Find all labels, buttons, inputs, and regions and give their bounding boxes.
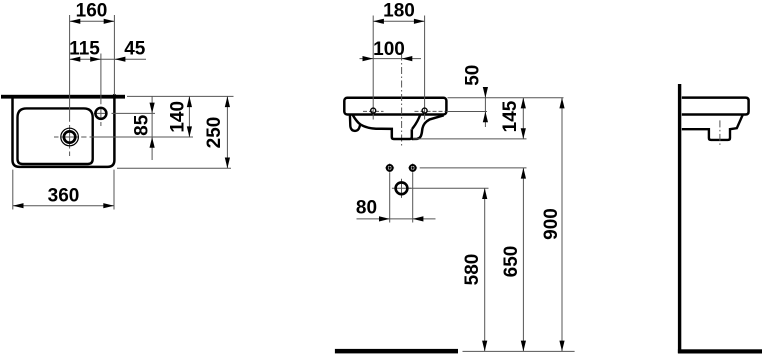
dimension 100: [360, 39, 422, 61]
svg-text:50: 50: [462, 65, 483, 86]
basin inner bowl (plan): [18, 108, 93, 164]
drain outer circle: [61, 128, 79, 146]
dimension 145: [500, 98, 526, 139]
mounting hole small L: [385, 164, 394, 173]
floor bar (side): [678, 349, 762, 353]
bowl underside + siphon box (front): [352, 115, 443, 140]
box bottom extension to 145: [413, 138, 527, 140]
svg-text:100: 100: [373, 39, 405, 60]
dimension 45: [101, 38, 146, 62]
rim band (side): [682, 98, 749, 115]
bowl inner wall curve (front right): [412, 115, 420, 130]
extension small holes to 650: [420, 167, 527, 169]
extension line 360 right: [113, 170, 115, 210]
svg-text:160: 160: [76, 1, 108, 22]
svg-text:140: 140: [167, 101, 188, 133]
extension 80 right: [412, 173, 414, 223]
dimension 50: [462, 65, 488, 127]
dimension 85 (plan right): [132, 96, 155, 160]
drain stub axis (side, dash-dot): [719, 120, 721, 145]
svg-text:80: 80: [356, 198, 377, 219]
tap mark L dashes: [363, 110, 384, 112]
floor thin line: [463, 350, 575, 352]
svg-text:180: 180: [383, 1, 415, 22]
drain centerline vertical (plan): [69, 15, 71, 156]
extension big hole to 580: [409, 187, 489, 189]
svg-text:250: 250: [204, 117, 225, 149]
overflow hook (front left): [350, 115, 360, 131]
svg-text:900: 900: [541, 208, 562, 240]
svg-text:85: 85: [132, 114, 153, 136]
dimension 115: [69, 38, 101, 62]
dimension 650: [501, 168, 526, 351]
extension line sink top edge to right dims: [127, 95, 234, 97]
svg-text:115: 115: [69, 38, 100, 59]
dimension 360: [13, 186, 114, 209]
extension 80 left: [389, 173, 391, 223]
drain centerline horizontal (plan): [54, 136, 193, 138]
tap mark L circle: [371, 108, 376, 113]
rim band (front): [344, 98, 446, 115]
svg-text:360: 360: [48, 186, 80, 207]
svg-text:650: 650: [501, 246, 522, 278]
dimension 900: [541, 98, 565, 352]
tap mark R circle: [422, 108, 427, 113]
wall line (side): [678, 84, 681, 353]
drain inner circle: [64, 131, 75, 142]
dimension 250 (plan right): [204, 96, 230, 168]
dimension 160: [70, 1, 115, 24]
extension line 360 left: [12, 170, 14, 210]
dimension 140 (plan right): [167, 96, 192, 137]
svg-text:45: 45: [124, 38, 146, 59]
centerline (front, dash-dot): [401, 54, 403, 147]
dimension 180: [373, 1, 424, 24]
left tap mark ext line: [372, 16, 374, 120]
tap line extension to 50: [446, 111, 487, 113]
svg-text:580: 580: [462, 254, 483, 286]
extension line sink bottom edge to right dims: [117, 167, 231, 169]
mounting hole small R: [408, 164, 417, 173]
tap hole circle (plan): [95, 108, 106, 119]
tap mark R dashes: [415, 110, 446, 112]
tap hole centerline vertical (plan): [100, 54, 102, 127]
tap hole centerline horizontal (plan): [94, 112, 155, 114]
wall bar (plan): [1, 95, 125, 99]
dimension 80: [356, 198, 436, 222]
mounting hole big (siphon): [392, 179, 411, 198]
underside with drain stub (side): [682, 115, 743, 140]
right tap mark ext line: [424, 16, 426, 120]
svg-text:145: 145: [500, 100, 521, 132]
basin outer outline (plan): [13, 94, 115, 167]
extension line 160/45 right (above sink): [113, 15, 115, 95]
rim top extension line to 900: [448, 97, 564, 99]
floor bar (front): [335, 349, 458, 354]
dimension 580: [462, 188, 488, 351]
